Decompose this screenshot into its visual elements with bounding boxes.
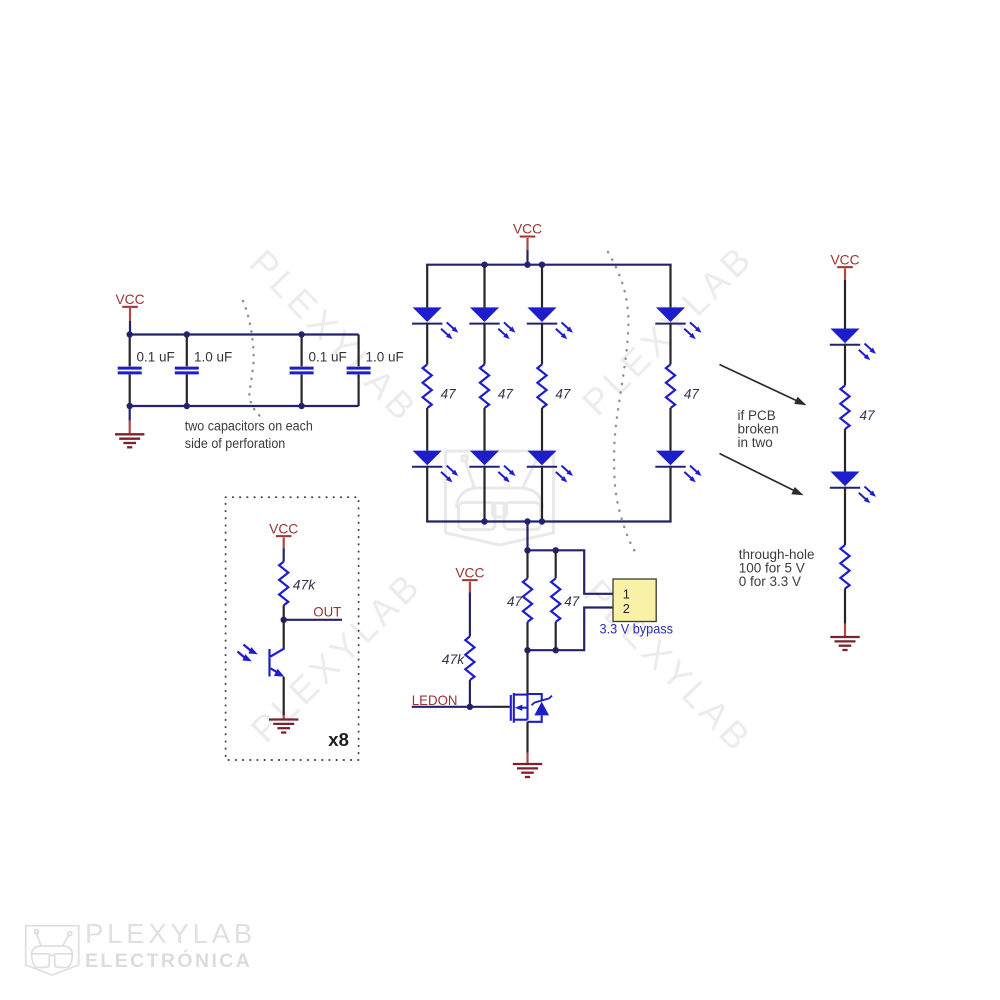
- wire LED D1a to resistor: [426, 323, 428, 365]
- svg-text:PLEXYLAB: PLEXYLAB: [576, 572, 761, 761]
- capacitor C3 0.1 uF: [290, 335, 314, 407]
- power flag VCC (broken strand): [830, 252, 859, 280]
- LED D2b (row 2, column 2): [469, 451, 515, 483]
- watermark text TL: [242, 242, 427, 431]
- LED D10 (strand): [830, 472, 876, 504]
- arrow to broken strand (lower): [720, 454, 804, 496]
- wire matrix top rail: [426, 264, 671, 266]
- phototransistor Q (NPN): [238, 645, 285, 677]
- power flag VCC (LED matrix): [513, 222, 542, 250]
- wire LEDON to gate: [490, 706, 510, 708]
- capacitor C2 1.0 uF: [175, 335, 199, 407]
- svg-text:47k: 47k: [293, 578, 317, 593]
- wire bypass pin 2 to bottom node row: [528, 608, 614, 651]
- wire matrix bottom rail: [426, 520, 671, 522]
- svg-text:1.0 uF: 1.0 uF: [366, 350, 404, 365]
- perforation dotted line (matrix): [608, 252, 638, 557]
- wire resistor to LED D3b: [541, 408, 543, 451]
- svg-text:47: 47: [555, 386, 571, 401]
- wire VCC to top rail: [129, 321, 131, 335]
- svg-text:47: 47: [684, 386, 700, 401]
- capacitor C4 1.0 uF: [347, 335, 371, 407]
- wire 47k to LEDON node: [469, 680, 471, 707]
- MOSFET Q1 with body diode: [511, 693, 552, 723]
- svg-text:47: 47: [507, 594, 523, 609]
- resistor R10 47k: [465, 636, 474, 680]
- resistor R8 47 (left bypass): [523, 550, 532, 650]
- svg-text:1.0 uF: 1.0 uF: [194, 350, 232, 365]
- resistor R7 47k: [279, 562, 288, 606]
- svg-text:0 for 3.3 V: 0 for 3.3 V: [739, 574, 801, 589]
- wire resistor to ground (strand): [844, 589, 846, 624]
- wire matrix bottom rail down to node: [526, 522, 528, 551]
- wire OUT node to phototransistor collector: [283, 620, 285, 649]
- wire VCC to matrix top rail: [526, 250, 528, 265]
- wire top rail (cap bank): [129, 333, 359, 335]
- svg-text:two capacitors on each: two capacitors on each: [185, 419, 313, 434]
- wire LED D10 to through-hole resistor: [844, 487, 846, 545]
- svg-text:47: 47: [564, 594, 580, 609]
- svg-text:0.1 uF: 0.1 uF: [309, 350, 347, 365]
- power flag VCC (capacitor bank): [115, 292, 144, 321]
- wire column 3 anode: [541, 265, 543, 308]
- LED D3a (row 1, column 3): [527, 307, 573, 339]
- wire emitter to ground (cell): [283, 677, 285, 715]
- bypass jumper J1 (yellow box): [613, 579, 656, 622]
- wire source to ground: [526, 722, 528, 753]
- svg-text:in two: in two: [738, 435, 773, 450]
- wire drain (node to MOSFET): [526, 650, 528, 694]
- wire resistor to LED D10: [844, 429, 846, 472]
- arrow to broken strand (upper): [720, 365, 807, 406]
- wire OUT: [284, 619, 342, 621]
- svg-text:ELECTRÓNICA: ELECTRÓNICA: [85, 948, 252, 972]
- junction dots (matrix rails): [481, 262, 545, 525]
- junction dot OUT node: [281, 617, 287, 623]
- wire LED D2a to resistor: [483, 323, 485, 365]
- junction dots (cap bank): [127, 331, 305, 409]
- junction dots (bottom node row): [524, 647, 530, 653]
- wire resistor to LED D1b: [426, 408, 428, 451]
- watermark text BR: [576, 572, 761, 761]
- LED D9 (strand): [830, 329, 876, 361]
- resistor R5 47 (strand): [840, 385, 849, 429]
- ground (MOSFET source): [513, 753, 542, 778]
- wire column 1 anode: [426, 265, 428, 308]
- wire LED D2b cathode to bottom rail: [483, 466, 485, 522]
- svg-text:47: 47: [498, 386, 514, 401]
- resistor R2 47: [480, 364, 489, 408]
- LED D1b (row 2, column 1): [412, 451, 458, 483]
- wire LED D3a to resistor: [541, 323, 543, 365]
- LED D4a (row 1, column 4): [655, 307, 701, 339]
- perforation dotted line (cap bank): [243, 301, 265, 420]
- wire LED D4b cathode to bottom rail: [669, 466, 671, 522]
- wire VCC to 47k: [469, 593, 471, 637]
- wire VCC to resistor 47k: [283, 549, 285, 562]
- watermark text TR: [574, 236, 761, 423]
- wire top node row to bypass pin 1: [528, 550, 614, 594]
- power flag VCC (LEDON divider): [455, 565, 484, 592]
- resistor R3 47: [537, 364, 546, 408]
- ground (strand): [830, 624, 859, 651]
- resistor R1 47: [423, 364, 432, 408]
- wire bottom rail (cap bank): [129, 405, 359, 407]
- svg-text:PLEXYLAB: PLEXYLAB: [85, 918, 256, 949]
- wire column 2 anode: [483, 265, 485, 308]
- LED D1a (row 1, column 1): [412, 307, 458, 339]
- svg-text:47: 47: [441, 386, 457, 401]
- wire resistor to LED D4b: [669, 408, 671, 451]
- dotted box (phototransistor cell): [226, 497, 359, 760]
- wire resistor to OUT node: [283, 605, 285, 620]
- svg-text:0.1 uF: 0.1 uF: [137, 350, 175, 365]
- wire LEDON: [412, 706, 490, 708]
- svg-text:3.3 V bypass: 3.3 V bypass: [600, 622, 674, 637]
- capacitor C1 0.1 uF: [118, 335, 142, 407]
- wire LED D9 to resistor: [844, 344, 846, 386]
- svg-text:side of perforation: side of perforation: [185, 436, 285, 451]
- power flag VCC (phototransistor cell): [269, 521, 298, 548]
- svg-text:PLEXYLAB: PLEXYLAB: [242, 242, 427, 431]
- svg-text:x8: x8: [328, 729, 349, 750]
- LED D4b (row 2, column 4): [655, 451, 701, 483]
- wire column 4 anode: [669, 265, 671, 308]
- logo shield icon: [26, 926, 79, 975]
- wire VCC to LED: [844, 280, 846, 329]
- resistor R9 47 (right bypass): [551, 550, 560, 650]
- svg-text:47: 47: [860, 408, 876, 423]
- wire LED D1b cathode to bottom rail: [426, 466, 428, 522]
- svg-text:2: 2: [623, 602, 630, 616]
- wire resistor to LED D2b: [483, 408, 485, 451]
- svg-text:OUT: OUT: [313, 605, 342, 620]
- wire LED D3b cathode to bottom rail: [541, 466, 543, 522]
- wire LED D4a to resistor: [669, 323, 671, 365]
- resistor R6 through-hole (strand): [840, 545, 849, 589]
- junction dots (top node row): [524, 547, 530, 553]
- resistor R4 47: [666, 364, 675, 408]
- junction dot LEDON node: [467, 704, 473, 710]
- LED D2a (row 1, column 2): [469, 307, 515, 339]
- ground (cap bank): [115, 406, 144, 447]
- svg-text:1: 1: [623, 588, 630, 602]
- svg-text:47k: 47k: [442, 652, 466, 667]
- LED D3b (row 2, column 3): [527, 451, 573, 483]
- ground (cell): [269, 715, 298, 733]
- watermark text BL: [243, 563, 430, 750]
- watermark center logo shield: [446, 451, 554, 545]
